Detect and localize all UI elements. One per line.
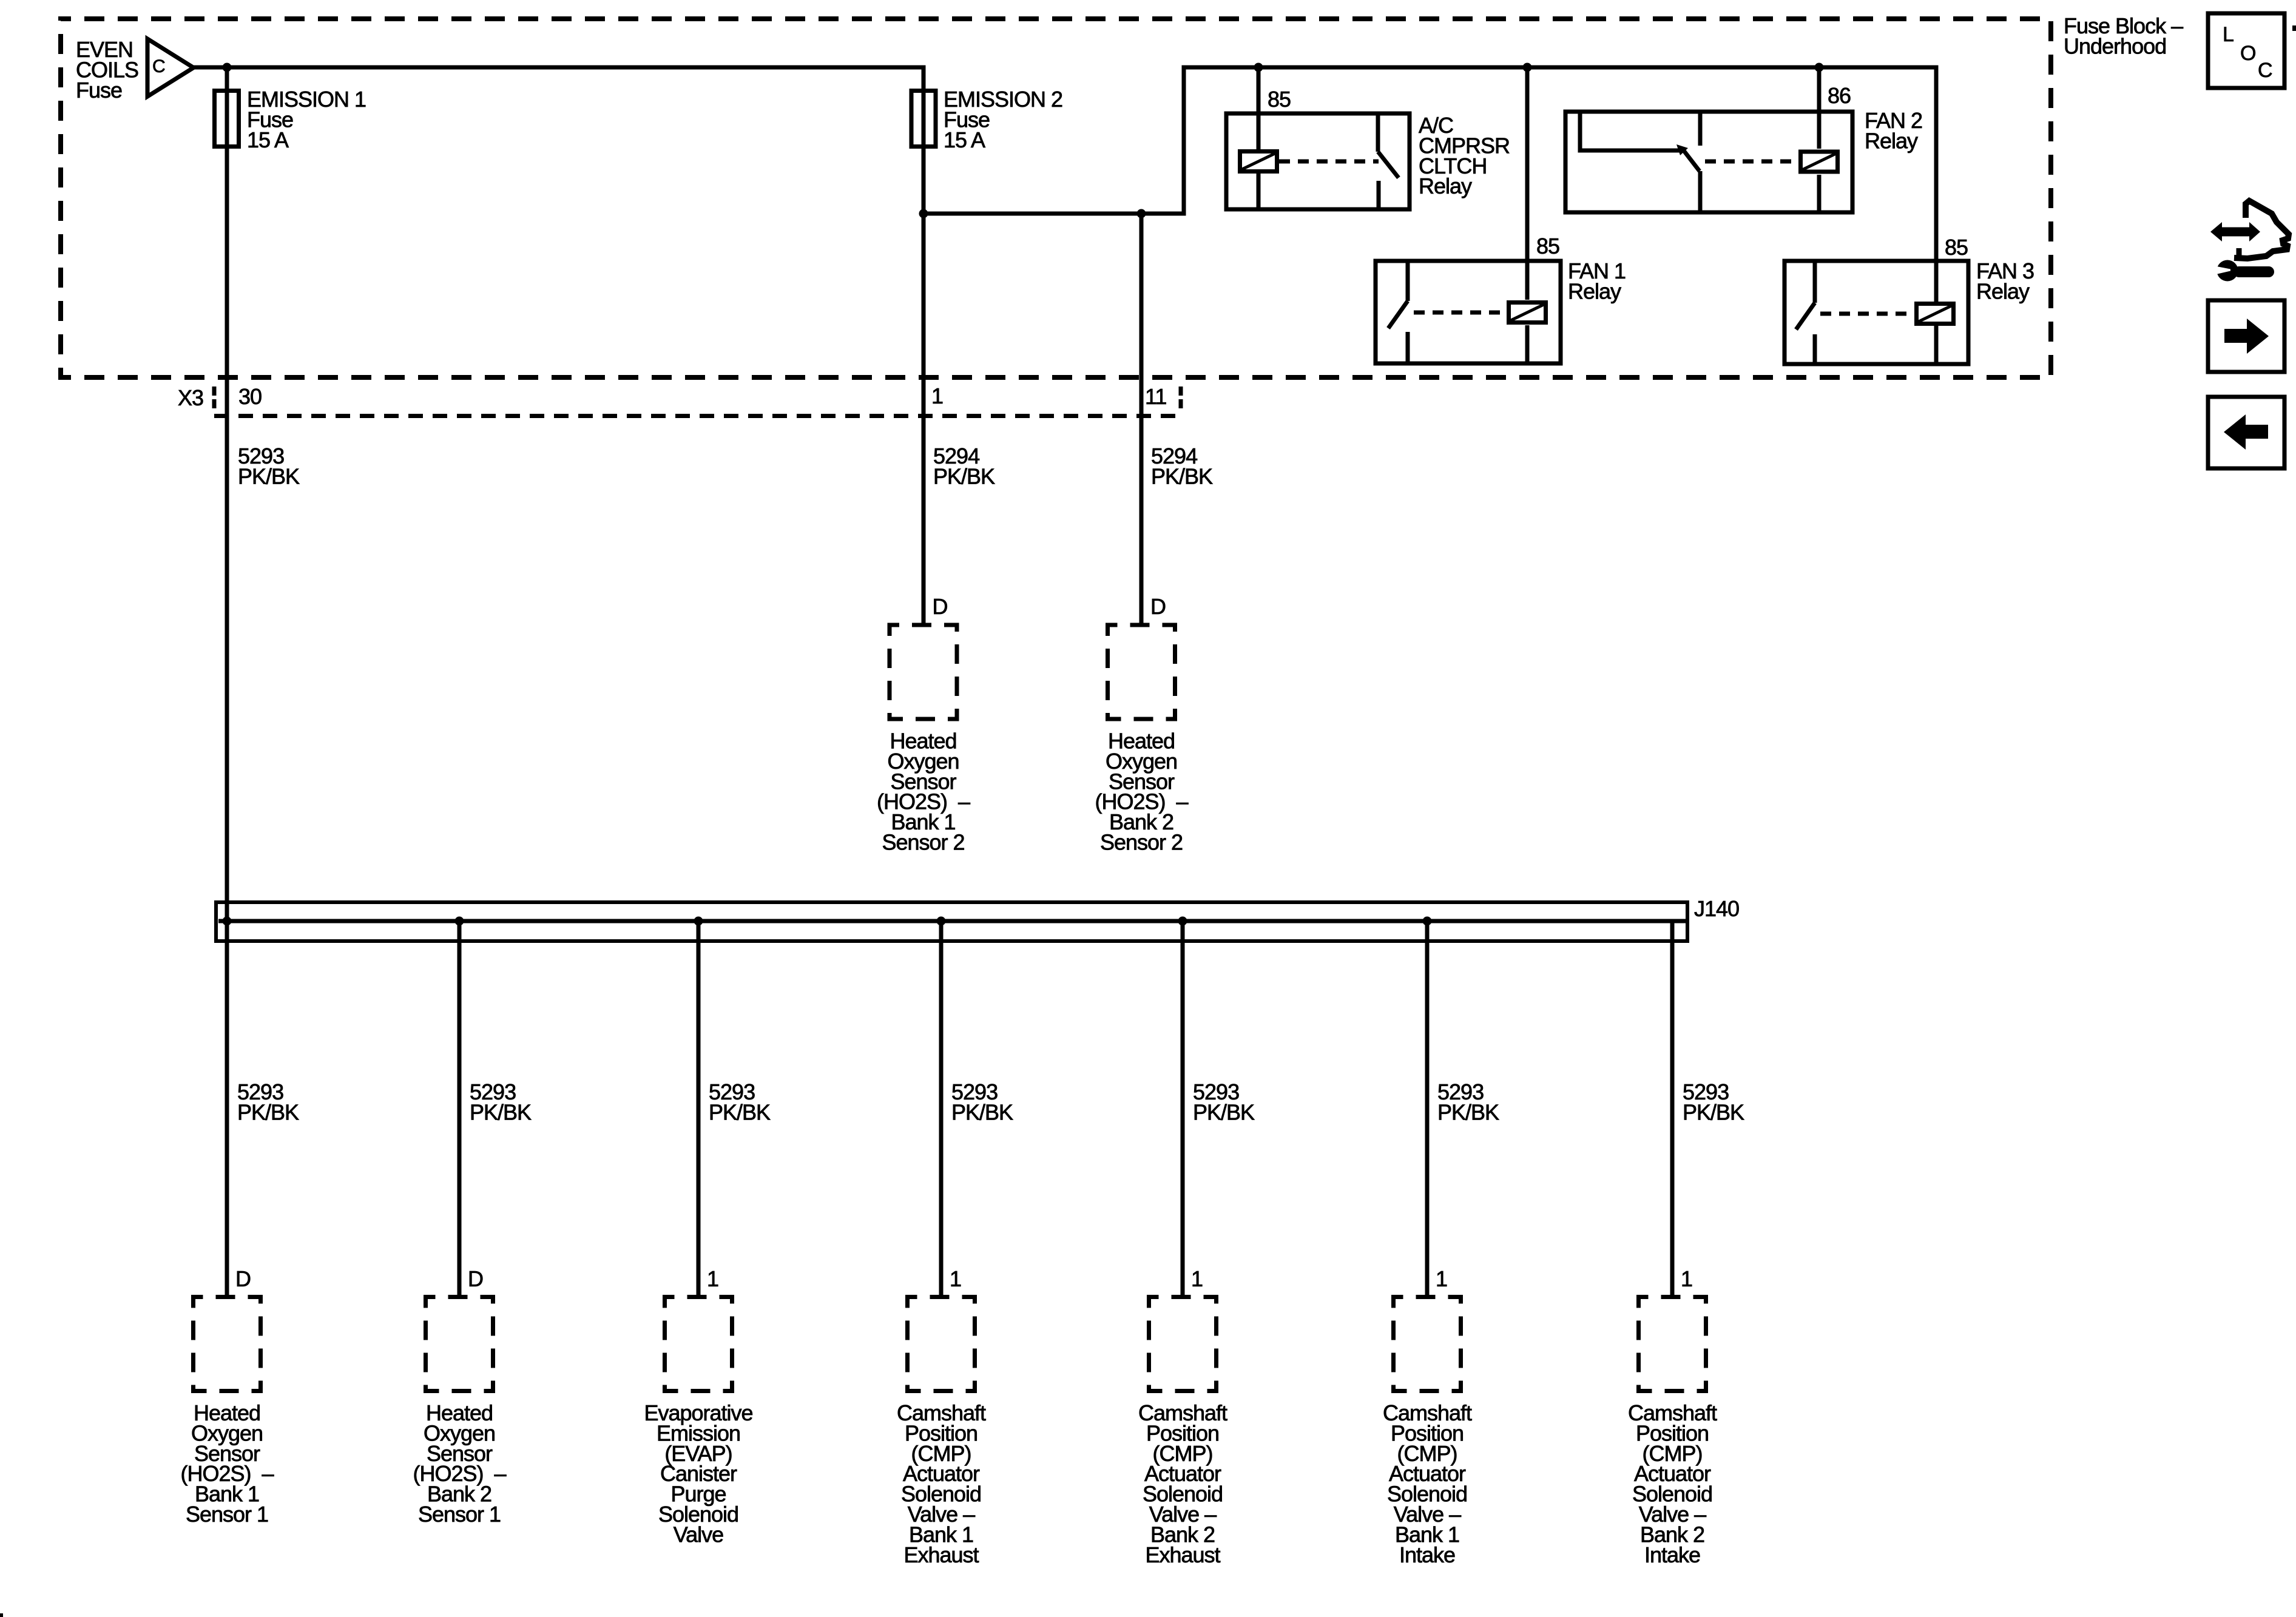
svg-text:D: D	[1150, 594, 1166, 619]
svg-text:Relay: Relay	[1568, 279, 1621, 303]
svg-text:PK/BK: PK/BK	[709, 1099, 771, 1124]
svg-text:PK/BK: PK/BK	[237, 1099, 299, 1124]
svg-text:Exhaust: Exhaust	[903, 1542, 979, 1567]
svg-text:Sensor 1: Sensor 1	[186, 1502, 268, 1527]
svg-text:Fuse: Fuse	[76, 78, 122, 103]
svg-text:85: 85	[1536, 234, 1559, 258]
svg-text:Intake: Intake	[1399, 1542, 1455, 1567]
svg-text:1: 1	[950, 1266, 961, 1291]
svg-text:30: 30	[238, 384, 262, 409]
svg-text:1: 1	[1191, 1266, 1203, 1291]
svg-text:85: 85	[1268, 87, 1291, 112]
svg-text:1: 1	[1436, 1266, 1447, 1291]
svg-text:Relay: Relay	[1419, 174, 1472, 198]
svg-text:Underhood: Underhood	[2064, 33, 2166, 58]
svg-text:PK/BK: PK/BK	[238, 464, 300, 488]
svg-text:Relay: Relay	[1865, 128, 1918, 153]
svg-text:PK/BK: PK/BK	[1437, 1099, 1499, 1124]
svg-text:11: 11	[1145, 384, 1166, 409]
svg-text:PK/BK: PK/BK	[470, 1099, 532, 1124]
svg-text:Sensor 2: Sensor 2	[882, 830, 964, 855]
svg-text:15 A: 15 A	[944, 127, 985, 152]
svg-text:PK/BK: PK/BK	[1151, 464, 1213, 488]
svg-text:Exhaust: Exhaust	[1145, 1542, 1220, 1567]
svg-text:1: 1	[1681, 1266, 1692, 1291]
svg-text:Intake: Intake	[1644, 1542, 1700, 1567]
svg-text:Valve: Valve	[674, 1522, 723, 1547]
svg-text:O: O	[2240, 42, 2255, 65]
svg-text:85: 85	[1945, 235, 1968, 260]
svg-text:1: 1	[931, 383, 943, 408]
svg-text:Sensor 1: Sensor 1	[418, 1502, 501, 1527]
svg-text:1: 1	[707, 1266, 718, 1291]
svg-text:C: C	[2258, 59, 2272, 82]
svg-text:PK/BK: PK/BK	[933, 464, 995, 488]
svg-text:PK/BK: PK/BK	[1683, 1099, 1744, 1124]
svg-text:L: L	[2223, 23, 2234, 46]
svg-text:D: D	[933, 594, 948, 619]
svg-text:D: D	[235, 1266, 251, 1291]
svg-text:X3: X3	[178, 385, 203, 410]
svg-text:PK/BK: PK/BK	[951, 1099, 1013, 1124]
svg-text:D: D	[468, 1266, 483, 1291]
svg-text:J140: J140	[1694, 896, 1739, 921]
svg-text:15 A: 15 A	[247, 127, 289, 152]
svg-text:Relay: Relay	[1976, 279, 2030, 303]
svg-text:PK/BK: PK/BK	[1193, 1099, 1255, 1124]
svg-text:C: C	[152, 56, 165, 76]
svg-text:86: 86	[1828, 83, 1851, 108]
svg-text:Sensor 2: Sensor 2	[1100, 830, 1183, 855]
